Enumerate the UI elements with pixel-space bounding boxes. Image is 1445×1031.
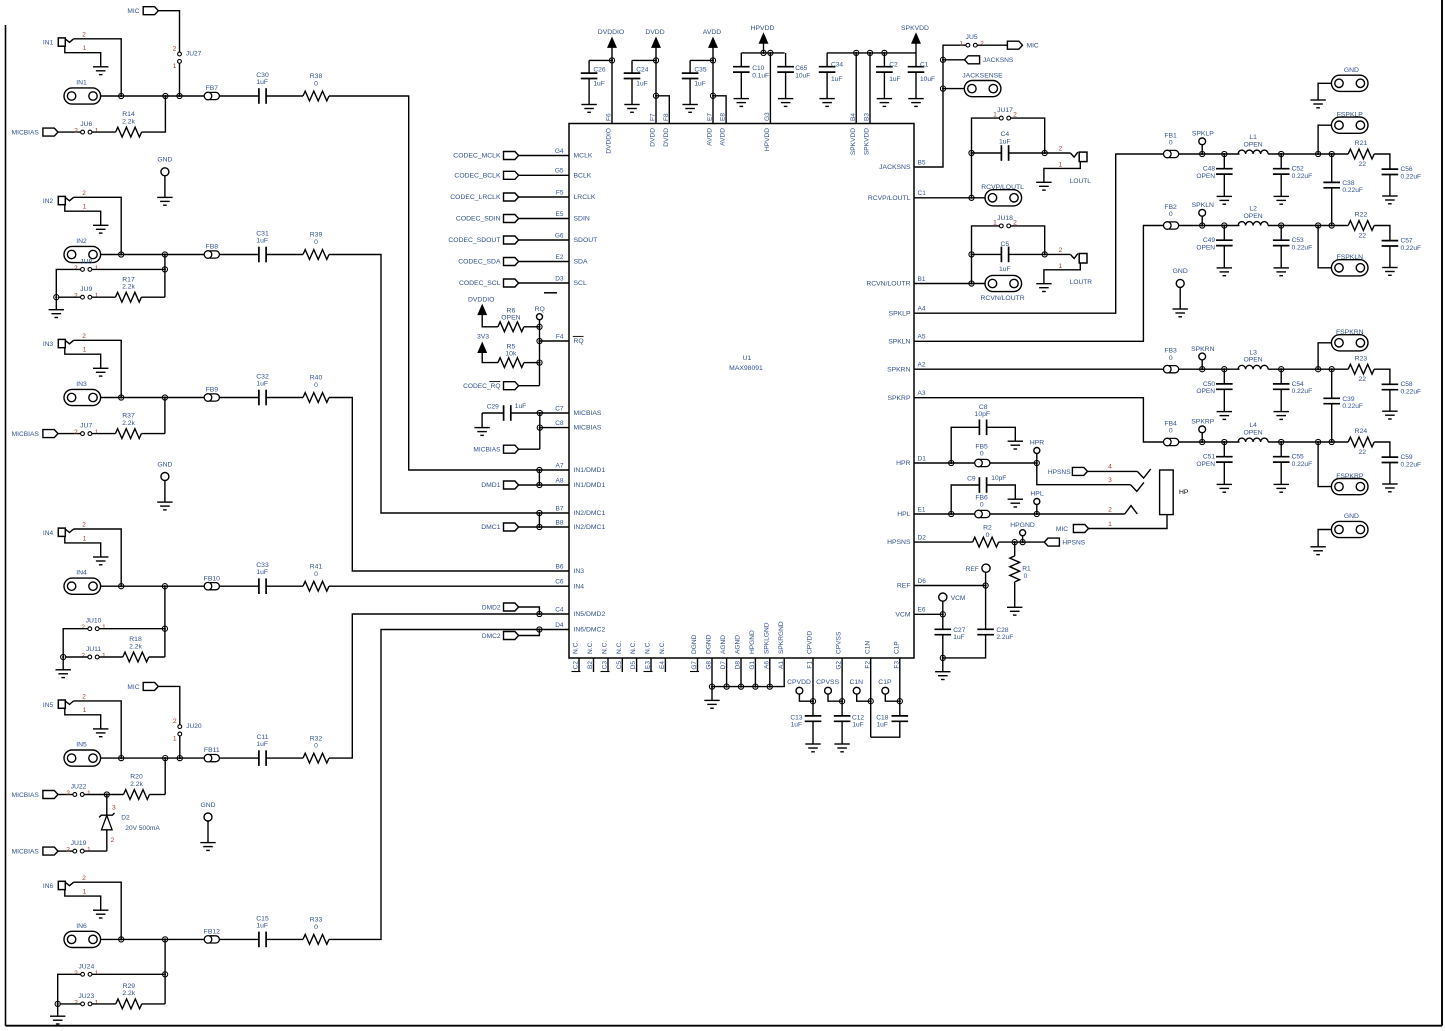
- svg-text:F4: F4: [556, 333, 564, 340]
- svg-text:IN3: IN3: [574, 568, 585, 575]
- wire: [58, 974, 81, 1004]
- wire contact 1: [1089, 515, 1168, 529]
- wire: [1374, 154, 1390, 169]
- junction: [767, 684, 772, 689]
- svg-text:0: 0: [980, 451, 984, 458]
- wire: [1223, 174, 1225, 196]
- svg-text:DVDD: DVDD: [663, 128, 670, 147]
- svg-text:2: 2: [82, 694, 86, 701]
- wire: [482, 353, 498, 363]
- wire: [266, 397, 303, 399]
- junction: [854, 50, 859, 55]
- wire: [689, 60, 691, 73]
- svg-text:0.22uF: 0.22uF: [1401, 389, 1422, 396]
- wire: [74, 340, 122, 397]
- svg-text:CODEC_LRCLK: CODEC_LRCLK: [450, 194, 501, 201]
- svg-text:2: 2: [74, 429, 78, 436]
- svg-text:C8: C8: [979, 404, 988, 411]
- wire: [1318, 442, 1331, 487]
- svg-text:R29: R29: [123, 983, 136, 990]
- svg-text:R2: R2: [983, 525, 992, 532]
- capacitor C65: [777, 66, 794, 68]
- wire: [985, 572, 987, 585]
- wire IN6 to U1 pin D4: [329, 630, 569, 940]
- svg-text:MIC: MIC: [1027, 43, 1039, 50]
- svg-text:IN5/DMD2: IN5/DMD2: [574, 611, 606, 618]
- svg-text:C13: C13: [790, 714, 802, 721]
- svg-text:1: 1: [173, 63, 177, 70]
- svg-text:R17: R17: [122, 276, 135, 283]
- svg-text:AGND: AGND: [735, 635, 742, 654]
- wire U1 pin D1 HPR: [914, 462, 975, 464]
- junction: [1222, 439, 1227, 444]
- wire: [538, 513, 540, 527]
- svg-text:CODEC_SCL: CODEC_SCL: [459, 280, 501, 287]
- wire pin stub: [636, 658, 638, 672]
- wire: [266, 254, 303, 256]
- svg-text:CPVDD: CPVDD: [807, 631, 814, 654]
- wire: [92, 973, 165, 975]
- wire: [142, 1003, 165, 1005]
- svg-text:22: 22: [1359, 161, 1367, 168]
- svg-text:C48: C48: [1203, 166, 1215, 173]
- svg-text:FB5: FB5: [975, 444, 988, 451]
- wire: [107, 794, 124, 796]
- wire: [99, 628, 165, 630]
- junction: [1316, 367, 1321, 372]
- svg-text:2.2k: 2.2k: [130, 781, 143, 788]
- svg-text:1uF: 1uF: [256, 79, 268, 86]
- wire: [1374, 369, 1390, 384]
- svg-text:0: 0: [1169, 140, 1173, 147]
- svg-text:JU9: JU9: [80, 286, 92, 293]
- wire: [1009, 152, 1045, 154]
- junction: [1329, 439, 1334, 444]
- junction: [537, 611, 542, 616]
- wire: [58, 433, 81, 435]
- svg-text:L1: L1: [1249, 134, 1257, 141]
- wire: [150, 794, 166, 796]
- svg-text:2: 2: [82, 875, 86, 882]
- svg-text:C1P: C1P: [893, 641, 900, 654]
- svg-text:D6: D6: [918, 578, 927, 585]
- capacitor C15: [258, 932, 260, 948]
- svg-text:D4: D4: [555, 622, 564, 629]
- wire: [539, 341, 541, 386]
- wire: [519, 385, 540, 387]
- svg-text:IN1/DMD1: IN1/DMD1: [574, 467, 606, 474]
- junction: [840, 699, 845, 704]
- svg-text:REF: REF: [897, 583, 911, 590]
- svg-text:0: 0: [980, 502, 984, 509]
- wire: [1318, 343, 1331, 369]
- capacitor C52: [1280, 154, 1282, 169]
- wire pin stub: [607, 658, 609, 672]
- wire: [65, 536, 101, 557]
- junction: [940, 86, 945, 91]
- svg-text:U1: U1: [743, 355, 752, 362]
- svg-text:SPKVDD: SPKVDD: [901, 25, 929, 32]
- junction: [609, 58, 614, 63]
- wire: [990, 513, 1037, 515]
- junction: [949, 460, 954, 465]
- wire IN4 to U1 pin C6: [329, 585, 569, 587]
- svg-text:2: 2: [1059, 146, 1063, 153]
- svg-text:FB4: FB4: [1164, 420, 1177, 427]
- svg-text:R20: R20: [130, 774, 143, 781]
- svg-text:2: 2: [82, 190, 86, 197]
- ground: [49, 309, 64, 311]
- wire: [1374, 442, 1390, 457]
- svg-text:HPSNS: HPSNS: [1062, 540, 1085, 547]
- svg-text:IN6: IN6: [43, 883, 54, 890]
- wire: [763, 43, 765, 53]
- svg-text:R22: R22: [1355, 212, 1368, 219]
- jumper JU7: [81, 432, 85, 436]
- wire: [1036, 505, 1038, 515]
- svg-text:1uF: 1uF: [831, 76, 842, 83]
- wire: [149, 656, 165, 658]
- wire: [1045, 253, 1071, 255]
- ground: [734, 98, 749, 100]
- ground: [1217, 411, 1232, 413]
- wire: [58, 296, 80, 298]
- wire: [1268, 368, 1348, 370]
- wire: [655, 47, 657, 123]
- svg-text:1: 1: [1059, 263, 1063, 270]
- wire: [219, 757, 259, 759]
- junction: [537, 324, 542, 329]
- svg-text:C55: C55: [1292, 454, 1304, 461]
- capacitor C56: [1382, 168, 1399, 170]
- wire: [1318, 226, 1331, 268]
- wire: [1201, 360, 1203, 369]
- jumper JU20: [178, 725, 182, 729]
- ground: [1274, 411, 1289, 413]
- svg-text:D3: D3: [555, 275, 564, 282]
- junction: [810, 699, 815, 704]
- svg-text:1uF: 1uF: [852, 722, 863, 729]
- svg-text:CODEC_BCLK: CODEC_BCLK: [454, 172, 501, 179]
- inductor L4: [1238, 438, 1268, 442]
- svg-text:C1N: C1N: [849, 679, 863, 686]
- ground: [1007, 606, 1022, 608]
- wire: [519, 218, 569, 220]
- junction: [653, 93, 658, 98]
- svg-text:1: 1: [1059, 162, 1063, 169]
- ferrite bead FB5: [977, 459, 990, 466]
- resistor R37: [115, 429, 141, 439]
- wire U1 pin B4: [855, 53, 857, 124]
- wire: [1179, 441, 1203, 443]
- svg-text:IN3: IN3: [43, 341, 54, 348]
- wire: [1331, 404, 1333, 442]
- junction: [119, 93, 124, 98]
- wire: [92, 268, 165, 270]
- ground: [1382, 410, 1397, 412]
- junction: [537, 338, 542, 343]
- jumper JU10: [88, 627, 92, 631]
- ground: [1310, 546, 1325, 548]
- capacitor C32: [258, 390, 260, 406]
- capacitor C28: [985, 586, 987, 630]
- svg-text:C54: C54: [1292, 381, 1304, 388]
- wire: [519, 630, 540, 636]
- svg-text:C33: C33: [256, 562, 269, 569]
- svg-text:22: 22: [1359, 376, 1367, 383]
- flag MIC: [1007, 41, 1022, 49]
- jack LOUTL: [1070, 152, 1078, 157]
- svg-text:22: 22: [1359, 449, 1367, 456]
- wire: [1389, 390, 1391, 412]
- wire: [689, 79, 691, 105]
- svg-text:IN1/DMD1: IN1/DMD1: [574, 482, 606, 489]
- wire: [219, 938, 259, 940]
- jack IN3: [58, 339, 65, 347]
- svg-text:SPKLN: SPKLN: [888, 338, 910, 345]
- junction: [1042, 150, 1047, 155]
- wire rail: [827, 52, 916, 54]
- svg-text:L4: L4: [1249, 422, 1257, 429]
- svg-text:2: 2: [1059, 247, 1063, 254]
- wire: [1223, 462, 1225, 484]
- ground: [1008, 440, 1023, 442]
- junction: [537, 627, 542, 632]
- svg-text:1: 1: [83, 535, 87, 542]
- svg-text:HPGND: HPGND: [749, 630, 756, 654]
- wire: [883, 72, 885, 99]
- svg-text:GND: GND: [200, 802, 215, 809]
- svg-text:HPR: HPR: [896, 460, 910, 467]
- ground: [704, 699, 719, 701]
- svg-text:1: 1: [95, 293, 99, 300]
- svg-text:HPVDD: HPVDD: [751, 25, 775, 32]
- wire: [519, 174, 569, 176]
- wire: [943, 59, 965, 61]
- svg-text:L2: L2: [1249, 206, 1257, 213]
- svg-text:1uF: 1uF: [953, 634, 964, 641]
- svg-text:1uF: 1uF: [256, 381, 268, 388]
- junction: [162, 267, 167, 272]
- svg-text:C2: C2: [889, 61, 898, 68]
- wire: [1044, 162, 1080, 183]
- junction: [1279, 223, 1284, 228]
- capacitor C27: [935, 628, 952, 630]
- svg-text:C1: C1: [918, 190, 927, 197]
- capacitor C38: [1331, 154, 1333, 182]
- svg-text:1uF: 1uF: [877, 722, 888, 729]
- svg-text:1uF: 1uF: [256, 741, 268, 748]
- svg-text:2: 2: [82, 333, 86, 340]
- wire IN1 to U1 pin A7: [329, 96, 569, 470]
- ground: [805, 743, 820, 745]
- wire: [179, 736, 181, 758]
- svg-text:FB1: FB1: [1164, 132, 1177, 139]
- capacitor C26: [581, 72, 598, 74]
- junction: [1316, 223, 1321, 228]
- wire: [943, 88, 964, 90]
- svg-text:1uF: 1uF: [256, 238, 268, 245]
- capacitor C5: [1000, 247, 1002, 263]
- wire: [519, 196, 569, 198]
- wire: [987, 485, 1016, 499]
- wire: [915, 43, 917, 66]
- svg-text:D2: D2: [918, 535, 927, 542]
- svg-text:1uF: 1uF: [889, 76, 900, 83]
- svg-text:C32: C32: [256, 374, 269, 381]
- svg-text:DVDD: DVDD: [645, 29, 664, 36]
- svg-text:DGND: DGND: [706, 634, 713, 654]
- svg-text:R39: R39: [310, 232, 323, 239]
- jumper JU23: [81, 1002, 85, 1006]
- wire U1 pin F4: [540, 340, 570, 342]
- svg-text:0.22uF: 0.22uF: [1292, 245, 1313, 252]
- contact: [1125, 506, 1138, 514]
- wire: [1036, 454, 1038, 464]
- wire: [1011, 226, 1045, 255]
- wire U1 pin E6 VCM: [914, 613, 943, 615]
- ferrite bead FB8: [207, 251, 220, 258]
- ground: [581, 104, 596, 106]
- wire: [524, 362, 540, 364]
- ferrite bead FB11: [207, 755, 220, 762]
- svg-text:G4: G4: [555, 148, 564, 155]
- svg-text:2: 2: [980, 41, 984, 48]
- wire: [538, 470, 540, 485]
- svg-text:JU10: JU10: [86, 618, 102, 625]
- svg-text:0.22uF: 0.22uF: [1292, 461, 1313, 468]
- svg-text:MIC: MIC: [127, 8, 139, 15]
- junction: [940, 612, 945, 617]
- wire: [101, 95, 205, 97]
- wire: [857, 694, 871, 701]
- svg-text:0: 0: [314, 571, 318, 578]
- svg-text:0: 0: [1169, 355, 1173, 362]
- resistor R40: [303, 393, 329, 403]
- wire pin stub: [664, 658, 666, 672]
- ground: [93, 556, 108, 558]
- junction: [163, 937, 168, 942]
- wire contact 4: [1088, 470, 1138, 472]
- wire branch: [164, 398, 166, 434]
- svg-text:1: 1: [1108, 521, 1112, 528]
- wire: [1318, 83, 1331, 100]
- svg-text:GND: GND: [157, 461, 172, 468]
- svg-text:2: 2: [82, 522, 86, 529]
- inductor L3: [1238, 365, 1268, 369]
- ferrite bead FB12: [207, 936, 220, 943]
- svg-text:SPKRP: SPKRP: [1191, 419, 1215, 426]
- jack IN5: [58, 700, 65, 708]
- junction: [761, 50, 766, 55]
- svg-text:SPKVDD: SPKVDD: [864, 128, 871, 155]
- svg-text:DMC1: DMC1: [481, 524, 500, 531]
- svg-text:OPEN: OPEN: [1243, 357, 1262, 364]
- junction: [1279, 151, 1284, 156]
- resistor R6: [498, 322, 524, 332]
- ground: [908, 98, 923, 100]
- ground: [93, 909, 108, 911]
- svg-text:R24: R24: [1355, 428, 1368, 435]
- svg-text:1uF: 1uF: [256, 569, 268, 576]
- svg-text:1: 1: [959, 41, 963, 48]
- wire: [1009, 253, 1045, 255]
- wire branch: [164, 586, 166, 657]
- svg-text:IN1: IN1: [76, 79, 87, 86]
- junction: [163, 756, 168, 761]
- wire pin stub: [593, 658, 595, 672]
- svg-text:B5: B5: [918, 159, 926, 166]
- capacitor C34: [819, 66, 836, 68]
- wire: [482, 412, 504, 414]
- svg-text:0.22uF: 0.22uF: [1401, 245, 1422, 252]
- wire: [539, 413, 541, 449]
- svg-text:DVDD: DVDD: [650, 128, 657, 147]
- wire pin stub: [650, 658, 652, 672]
- wire: [65, 708, 101, 729]
- svg-text:C1N: C1N: [864, 641, 871, 654]
- ground: [1310, 99, 1325, 101]
- svg-text:0: 0: [314, 81, 318, 88]
- svg-text:A5: A5: [918, 334, 926, 341]
- wire: [519, 155, 569, 157]
- wire: [84, 850, 107, 852]
- svg-text:HPSNS: HPSNS: [887, 539, 911, 546]
- jack IN1: [58, 38, 65, 46]
- wire: [158, 686, 180, 724]
- ground: [1382, 483, 1397, 485]
- svg-text:0.22uF: 0.22uF: [1342, 403, 1363, 410]
- wire: [266, 757, 303, 759]
- svg-text:R32: R32: [310, 735, 323, 742]
- svg-text:JU23: JU23: [78, 993, 94, 1000]
- ground: [93, 728, 108, 730]
- svg-text:C29: C29: [487, 404, 499, 411]
- wire: [74, 197, 122, 254]
- svg-text:GND: GND: [157, 157, 172, 164]
- svg-text:G5: G5: [555, 168, 564, 175]
- svg-text:SPKRGND: SPKRGND: [778, 621, 785, 654]
- svg-text:FB6: FB6: [975, 495, 988, 502]
- wire: [1268, 225, 1348, 227]
- svg-text:LOUTL: LOUTL: [1070, 178, 1092, 185]
- svg-text:JU19: JU19: [71, 840, 87, 847]
- junction: [1316, 151, 1321, 156]
- svg-text:R37: R37: [122, 413, 135, 420]
- svg-text:JU20: JU20: [186, 723, 202, 730]
- svg-text:1uF: 1uF: [515, 403, 526, 410]
- svg-text:C58: C58: [1401, 381, 1413, 388]
- wire ground bus: [711, 658, 713, 687]
- wire: [99, 656, 123, 658]
- svg-text:SCL: SCL: [574, 280, 587, 287]
- svg-text:DVDDIO: DVDDIO: [606, 128, 613, 154]
- ground: [819, 98, 834, 100]
- svg-text:IN1: IN1: [43, 40, 54, 47]
- capacitor C10: [733, 66, 750, 68]
- wire: [92, 296, 116, 298]
- wire: [511, 412, 569, 414]
- svg-text:R18: R18: [129, 636, 142, 643]
- svg-text:C35: C35: [694, 67, 706, 74]
- wire: [540, 427, 569, 429]
- svg-text:JU7: JU7: [80, 423, 92, 430]
- wire: [57, 1004, 59, 1016]
- svg-text:FB11: FB11: [204, 747, 220, 754]
- svg-text:0: 0: [1024, 573, 1028, 580]
- jumper JU17: [999, 116, 1003, 120]
- svg-text:C18: C18: [876, 714, 888, 721]
